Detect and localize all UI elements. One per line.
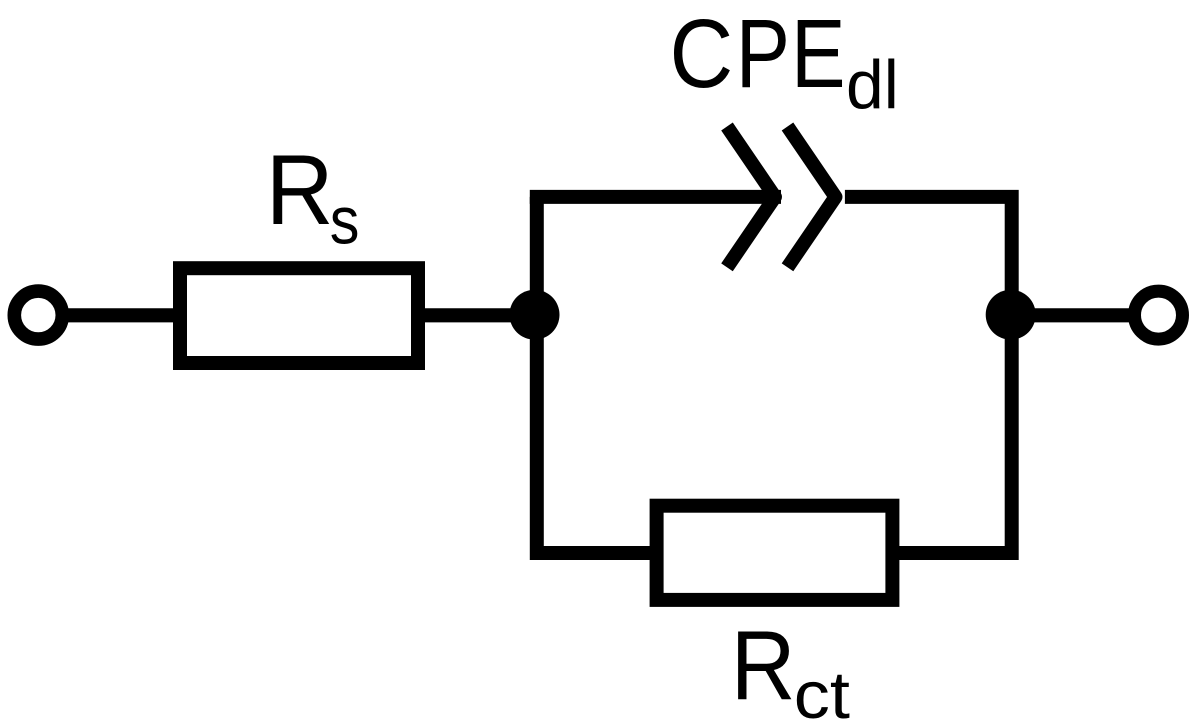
label CPE dl xyxy=(669,0,898,124)
terminal left (open circle) xyxy=(14,291,62,339)
wire: left vertical down to bottom branch xyxy=(537,315,650,553)
svg-text:s: s xyxy=(330,184,360,258)
wire: left terminal to Rs xyxy=(66,308,180,322)
node A junction dot xyxy=(510,290,560,340)
label Rct xyxy=(731,610,850,728)
wire: Rs to node A xyxy=(420,308,536,322)
wire: top-left corner to CPE xyxy=(530,190,781,204)
svg-text:R: R xyxy=(266,136,334,246)
svg-text:ct: ct xyxy=(794,657,850,728)
svg-text:P: P xyxy=(736,0,790,108)
svg-text:E: E xyxy=(791,0,846,108)
label Rs xyxy=(266,136,360,259)
wire: CPE to top-right corner xyxy=(845,197,1012,315)
node B junction dot xyxy=(986,290,1036,340)
resistor Rs xyxy=(180,268,418,363)
terminal right (open circle) xyxy=(1135,291,1183,339)
wire: left vertical branch riser xyxy=(530,197,544,315)
wire: Rct to bottom-right corner xyxy=(899,315,1012,553)
svg-text:R: R xyxy=(731,610,796,720)
svg-text:dl: dl xyxy=(846,47,899,123)
wire: node B to right terminal xyxy=(1012,308,1132,322)
resistor Rct xyxy=(657,506,893,600)
svg-text:C: C xyxy=(669,0,733,108)
capacitor CPE dl (constant phase element, double chevron) xyxy=(727,127,836,268)
